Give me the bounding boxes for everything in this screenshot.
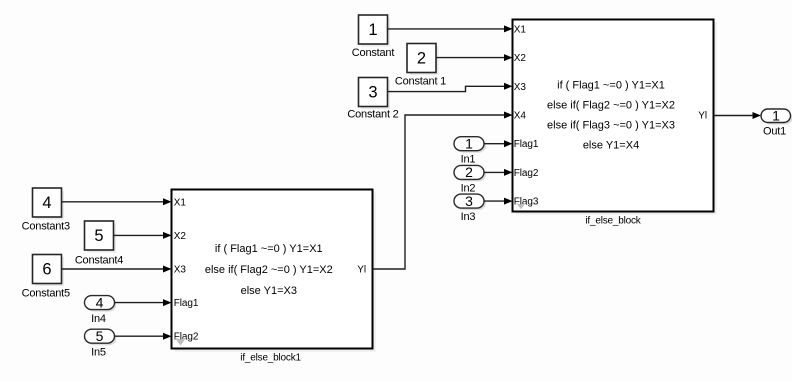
constant C: Constant (value 1) [352,15,395,59]
svg-text:Constant 2: Constant 2 [347,109,398,121]
svg-text:if_else_block1: if_else_block1 [240,353,301,364]
svg-text:In5: In5 [91,346,106,358]
svg-text:X1: X1 [514,24,527,35]
svg-text:Constant: Constant [352,47,395,59]
inport In3 [454,193,486,223]
svg-text:if_else_block: if_else_block [585,216,641,227]
svg-text:X4: X4 [514,111,527,122]
svg-text:else if( Flag2 ~=0 ) Y1=X2: else if( Flag2 ~=0 ) Y1=X2 [547,100,675,112]
wire Constant5 to X3 of if_else_block1 [62,266,172,273]
svg-text:4: 4 [96,294,104,310]
svg-text:1: 1 [368,21,377,39]
svg-text:5: 5 [96,328,104,344]
svg-text:X3: X3 [514,82,527,93]
wire In3 to Flag3 [484,198,513,205]
svg-text:4: 4 [42,194,51,212]
wire In1 to Flag1 [484,140,513,147]
svg-text:1: 1 [465,135,473,151]
wire if_else_block1 Y1 to if_else_block X4 [373,112,513,270]
svg-text:6: 6 [42,261,51,279]
constant C3: Constant3 (value 4) [22,188,70,233]
svg-text:else Y1=X4: else Y1=X4 [583,140,639,152]
svg-text:X2: X2 [514,53,527,64]
inport In1 [454,135,486,165]
constant C5: Constant5 (value 6) [22,255,70,300]
svg-text:if ( Flag1 ~=0 ) Y1=X1: if ( Flag1 ~=0 ) Y1=X1 [557,80,665,92]
svg-text:3: 3 [368,84,377,102]
svg-text:Constant4: Constant4 [75,255,123,267]
svg-text:else if( Flag2 ~=0 ) Y1=X2: else if( Flag2 ~=0 ) Y1=X2 [205,264,333,276]
svg-text:Constant3: Constant3 [22,221,70,233]
wire Constant 1 to X2 [436,54,513,61]
wire Y1 to Out1 [714,112,762,119]
svg-text:Flag1: Flag1 [514,139,539,150]
wire In2 to Flag2 [484,169,513,176]
inport In5 [85,328,117,359]
wire In5 to Flag2 of if_else_block1 [115,333,172,340]
svg-text:3: 3 [465,193,473,209]
svg-text:5: 5 [94,227,103,245]
constant C1: Constant 1 (value 2) [395,44,446,88]
outport Out1 [761,107,792,137]
constant C4: Constant4 (value 5) [75,221,123,267]
constant C2: Constant 2 (value 3) [347,78,398,121]
svg-text:X2: X2 [174,231,187,242]
svg-text:Constant5: Constant5 [22,288,70,300]
subsystem marker chevron of if_else_block1 [175,338,187,346]
svg-text:if ( Flag1 ~=0 ) Y1=X1: if ( Flag1 ~=0 ) Y1=X1 [215,243,323,255]
svg-text:Constant 1: Constant 1 [395,76,446,88]
inport In2 [454,164,486,194]
subsystem U2: if_else_block1 [172,190,376,364]
svg-text:2: 2 [465,164,473,180]
svg-text:In4: In4 [91,313,106,325]
inport In4 [85,294,117,325]
wire Constant3 to X1 of if_else_block1 [62,198,172,205]
svg-text:X1: X1 [174,197,187,208]
wire In4 to Flag1 of if_else_block1 [115,299,172,306]
svg-text:else if( Flag3 ~=0 ) Y1=X3: else if( Flag3 ~=0 ) Y1=X3 [547,120,675,132]
svg-text:else Y1=X3: else Y1=X3 [241,285,297,297]
svg-text:Flag2: Flag2 [514,168,539,179]
wire Constant to X1 [388,25,513,32]
wire Constant 2 to X3 [388,83,513,92]
wire Constant4 to X2 of if_else_block1 [114,232,172,239]
svg-text:Flag3: Flag3 [514,197,539,208]
subsystem U1: if_else_block [513,20,717,227]
svg-text:Yl: Yl [357,265,366,276]
svg-text:2: 2 [417,50,426,68]
svg-text:Flag1: Flag1 [174,298,199,309]
svg-text:Out1: Out1 [763,126,786,138]
subsystem marker chevron of if_else_block [516,203,526,210]
svg-text:Yl: Yl [698,111,707,122]
svg-text:X3: X3 [174,265,187,276]
svg-text:1: 1 [772,107,780,123]
svg-text:In3: In3 [461,211,476,223]
